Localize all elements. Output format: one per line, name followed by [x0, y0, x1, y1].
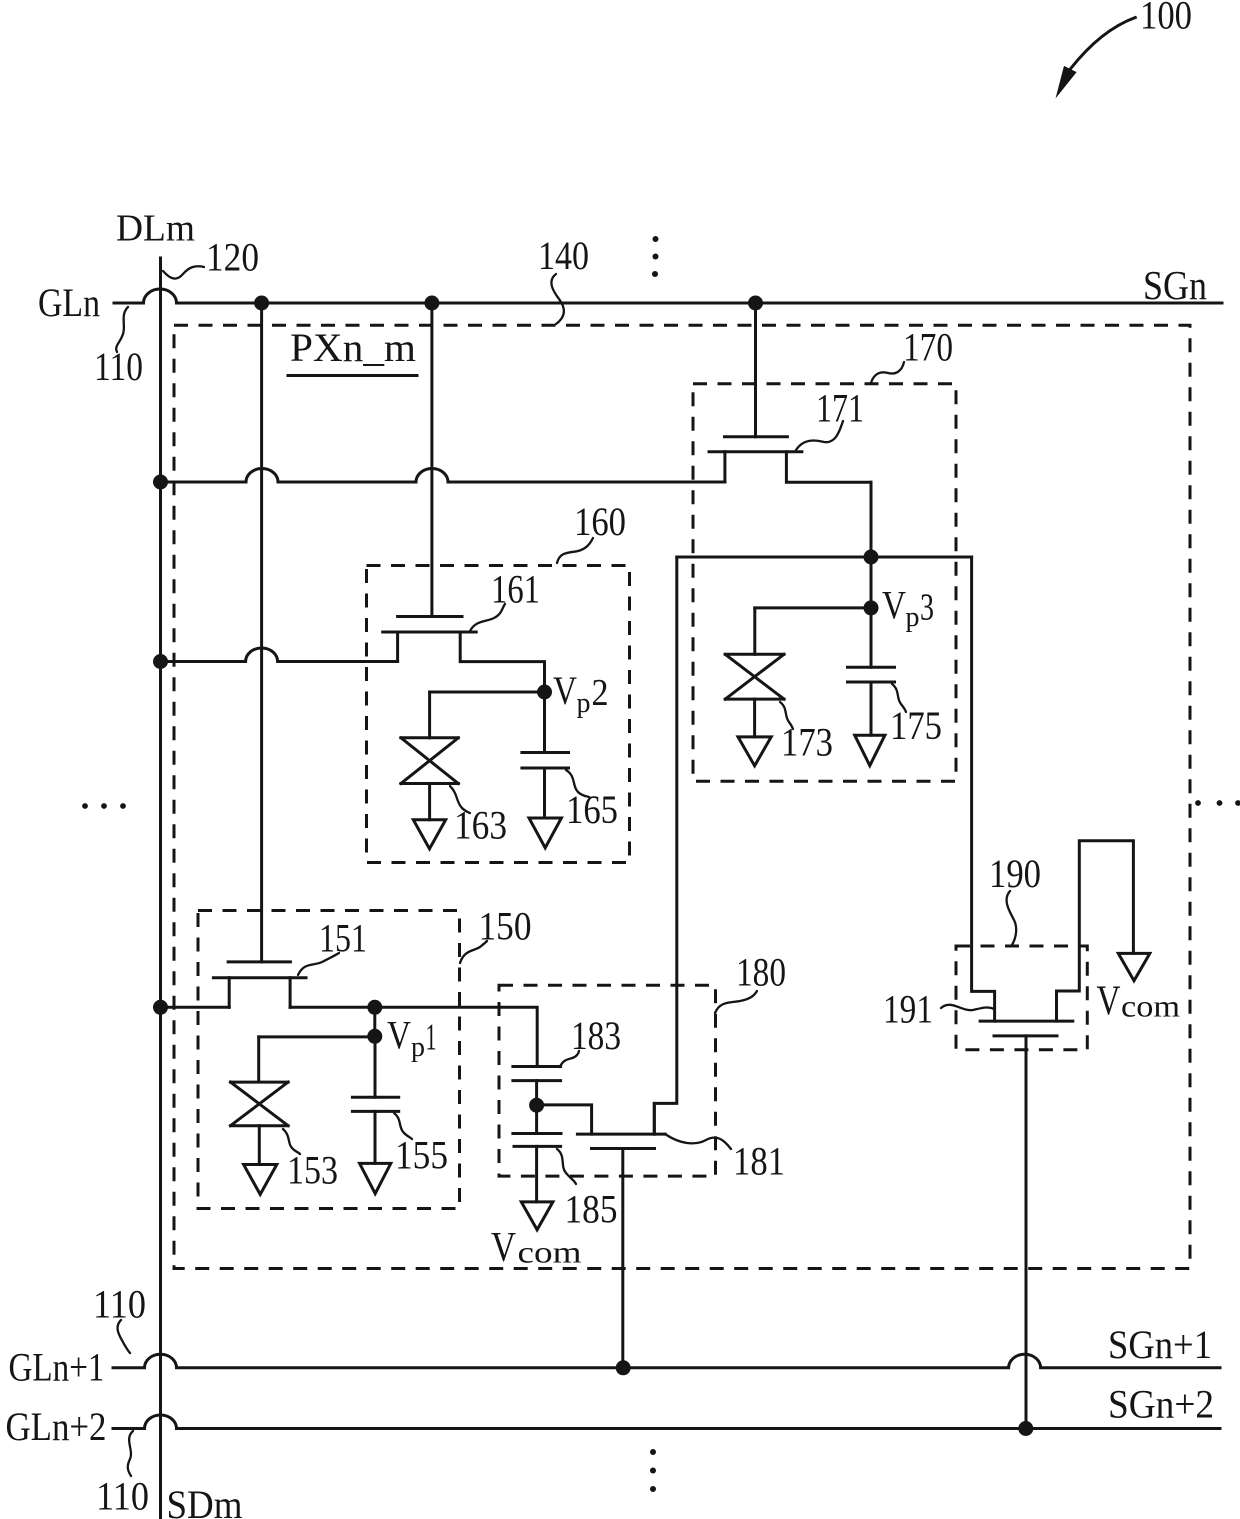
svg-text:V: V — [882, 583, 906, 628]
svg-text:191: 191 — [883, 987, 933, 1032]
wire node Vp2 horizontal to diode 163 — [430, 691, 545, 694]
wire from Vp1 branch down to diode 153 — [257, 1037, 260, 1082]
wire vertical from GLn to transistor 171 gate — [754, 303, 757, 437]
leader of 165 — [566, 770, 589, 797]
ground arrow of capacitor 155 — [360, 1163, 391, 1193]
junction dots on GLn — [254, 296, 269, 311]
svg-text:151: 151 — [319, 916, 367, 961]
svg-text:SGn+2: SGn+2 — [1108, 1382, 1214, 1427]
leader of 110 bottom second — [128, 1431, 133, 1476]
junction dot row 4 — [367, 1000, 382, 1015]
label Vp3 — [882, 583, 934, 634]
wire vertical from GLn to transistor 161 gate — [430, 303, 433, 617]
svg-text:173: 173 — [781, 720, 833, 765]
svg-text:V: V — [387, 1013, 411, 1058]
svg-text:GLn+1: GLn+1 — [9, 1345, 105, 1390]
svg-text:165: 165 — [566, 787, 618, 832]
leader of 163 — [450, 786, 470, 813]
svg-text:GLn+2: GLn+2 — [6, 1404, 107, 1449]
leader of 170 — [871, 362, 904, 383]
leader of 171 — [796, 421, 843, 450]
leader of 183 — [560, 1051, 579, 1067]
capacitor 175 — [848, 667, 895, 735]
dashed box 170 — [693, 384, 956, 782]
wire left branch down to transistor 181 right leg — [654, 557, 677, 1134]
wire gate line GLn horizontal with hop over DLm — [114, 289, 1222, 303]
capacitor 183 — [513, 1067, 561, 1134]
wire row line from DLm to transistor 171 left leg with hops — [161, 469, 725, 483]
ellipsis dots left — [82, 803, 126, 809]
wire from Vp2 down to capacitor 165 — [543, 692, 546, 753]
capacitor 155 — [352, 1097, 398, 1163]
svg-text:110: 110 — [93, 1282, 146, 1327]
diode 173 — [725, 654, 784, 737]
ground arrow of capacitor 185 to Vcom — [521, 1202, 553, 1230]
wire horizontal node line in box 170 — [677, 556, 972, 559]
svg-text:171: 171 — [816, 386, 864, 431]
ground arrow of capacitor 165 — [529, 818, 561, 848]
svg-text:180: 180 — [736, 950, 786, 995]
junction dot on GLn+2 — [1018, 1421, 1033, 1436]
svg-text:100: 100 — [1140, 0, 1192, 38]
label Vp2 — [553, 668, 609, 719]
svg-text:160: 160 — [574, 499, 626, 544]
junction dot on GLn+1 — [616, 1360, 631, 1375]
ground arrow of diode 153 — [244, 1165, 277, 1195]
svg-text:2: 2 — [592, 672, 609, 714]
svg-text:GLn: GLn — [38, 280, 100, 325]
wire from Vp2 branch down to diode 163 — [428, 692, 431, 738]
wire row line from DLm to transistor 161 left leg with hop — [161, 648, 398, 662]
leader of 180 — [715, 991, 757, 1013]
svg-text:p: p — [411, 1031, 425, 1063]
leader of 140 — [551, 274, 563, 324]
svg-text:181: 181 — [733, 1139, 785, 1184]
svg-text:110: 110 — [94, 344, 143, 389]
dashed box 160 — [367, 566, 630, 863]
svg-text:140: 140 — [538, 233, 589, 278]
reference arrow for 100 — [1056, 18, 1136, 99]
leader of 161 — [470, 604, 505, 631]
svg-text:3: 3 — [920, 587, 934, 629]
ground arrow of diode 163 — [413, 820, 445, 849]
capacitor 185 — [513, 1134, 561, 1202]
wire from Vp3 branch down to diode 173 — [753, 608, 756, 654]
dashed box 190 — [956, 946, 1087, 1050]
ellipsis dots bottom center — [650, 1449, 656, 1492]
ellipsis dots right — [1195, 800, 1240, 806]
svg-text:155: 155 — [395, 1133, 448, 1178]
svg-text:com: com — [518, 1235, 582, 1270]
svg-text:185: 185 — [565, 1187, 618, 1232]
leader of 173 — [780, 702, 793, 729]
wire node Vp3 horizontal to diode 173 — [755, 606, 871, 609]
svg-text:SDm: SDm — [167, 1482, 243, 1519]
label Vcom right — [1097, 979, 1181, 1025]
wire row line from DLm to transistor 151 left leg — [161, 1006, 230, 1009]
wire from Vp1 down to capacitor 155 — [374, 1036, 377, 1097]
svg-text:PXn_m: PXn_m — [290, 325, 416, 370]
transistor 191 — [980, 841, 1133, 1036]
dashed box 180 — [499, 985, 716, 1176]
node dot below capacitor 183 — [529, 1098, 544, 1113]
leader of 155 — [394, 1113, 412, 1139]
leader of 110 top — [116, 307, 128, 352]
ellipsis dots top center — [652, 236, 659, 277]
leader of 181 — [665, 1134, 731, 1149]
svg-text:V: V — [491, 1225, 516, 1271]
label Vcom bottom — [491, 1225, 582, 1271]
capacitor 165 — [522, 753, 569, 819]
junction dots on DLm — [153, 475, 168, 490]
leader of 160 — [557, 538, 593, 563]
wire from node to Vp1 — [373, 1007, 376, 1036]
leader of 185 — [557, 1149, 576, 1184]
wire from transistor 171 drain down to node Vp3 and capacitor 175 — [870, 482, 873, 667]
leader of 110 bottom first — [118, 1320, 130, 1353]
svg-text:153: 153 — [287, 1148, 338, 1193]
leader of 175 — [892, 684, 906, 712]
node Vp3 dot — [864, 600, 879, 615]
leader of 153 — [283, 1129, 300, 1154]
svg-text:161: 161 — [491, 567, 540, 612]
ground arrow Vcom right — [1118, 953, 1150, 980]
svg-text:SGn+1: SGn+1 — [1108, 1322, 1212, 1367]
wire from node below 183 to transistor 181 left leg — [537, 1105, 592, 1134]
svg-text:SGn: SGn — [1143, 262, 1207, 308]
svg-text:110: 110 — [96, 1474, 149, 1519]
node Vp2 dot — [537, 685, 552, 700]
transistor 181 — [577, 1103, 665, 1148]
node Vp1 dot — [367, 1029, 382, 1044]
dashed box 140 pixel PXn_m — [174, 325, 1190, 1268]
svg-text:com: com — [1121, 989, 1180, 1024]
wire gate line GLn+2 with hop — [113, 1415, 1220, 1429]
svg-text:175: 175 — [890, 703, 942, 748]
wire from transistor 151 right leg to capacitor 183 — [290, 1007, 537, 1066]
svg-text:120: 120 — [206, 235, 259, 280]
diode 163 — [401, 738, 458, 820]
wire gate line GLn+1 with hops — [113, 1354, 1220, 1368]
leader of 190 — [1007, 891, 1017, 945]
label Vp1 — [387, 1013, 437, 1064]
wire data line DLm vertical — [159, 258, 162, 1519]
svg-text:V: V — [1097, 979, 1121, 1025]
svg-text:1: 1 — [426, 1017, 437, 1059]
svg-text:p: p — [577, 687, 591, 719]
wire vertical from GLn to transistor 151 gate — [260, 303, 263, 962]
diode 153 — [231, 1082, 289, 1164]
leader of 120 — [163, 266, 204, 278]
leader of 151 — [298, 953, 339, 975]
transistor 151 — [213, 962, 306, 1007]
label PXn_m underlined — [288, 325, 417, 376]
transistor 171 — [709, 437, 871, 482]
svg-text:170: 170 — [903, 325, 953, 370]
ground arrow of capacitor 175 — [855, 735, 885, 765]
svg-text:p: p — [906, 601, 920, 633]
dashed box 150 — [198, 911, 460, 1209]
wire gate of 191 down to GLn+2 — [1025, 1036, 1028, 1429]
svg-text:DLm: DLm — [116, 208, 195, 250]
svg-text:190: 190 — [989, 851, 1041, 896]
leader of 150 — [460, 941, 487, 963]
transistor 161 — [383, 617, 545, 693]
leader of 191 — [941, 1005, 994, 1010]
wire node Vp1 horizontal to diode 153 — [259, 1035, 375, 1038]
wire gate of 181 down to GLn+1 — [621, 1149, 624, 1368]
node dot in box 170 — [864, 550, 879, 565]
wire right branch down to transistor 191 left leg — [972, 557, 995, 1021]
svg-text:V: V — [553, 668, 577, 713]
ground arrow of diode 173 — [738, 737, 771, 766]
